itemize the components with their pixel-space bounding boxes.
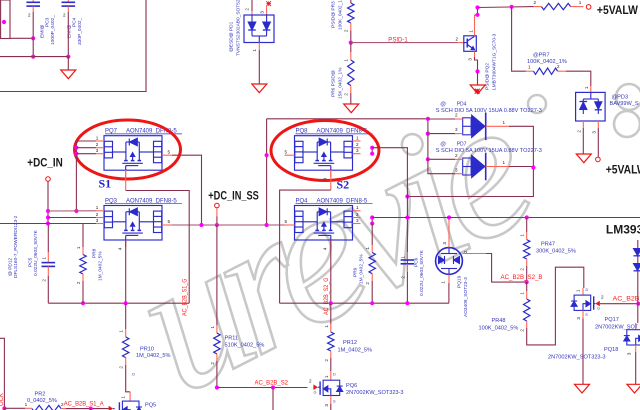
svg-text:S SCH DIO 5A 100V 15UA 0.88V T: S SCH DIO 5A 100V 15UA 0.88V TO227-3 [436, 148, 542, 154]
junction bus/PQ8.5 [265, 223, 269, 227]
svg-text:2: 2 [455, 153, 458, 158]
resistor PR47 [526, 218, 528, 233]
wire PQ7 pin3 [76, 153, 96, 155]
svg-text:PC4: PC4 [72, 17, 78, 27]
svg-text:1M_0402_5%: 1M_0402_5% [136, 353, 171, 359]
svg-text:S SCH DIO 5A 100V 15UA 0.88V T: S SCH DIO 5A 100V 15UA 0.88V TO227-3 [436, 108, 542, 114]
svg-text:1: 1 [503, 160, 506, 165]
svg-text:0.022U_0603_50V7K: 0.022U_0603_50V7K [33, 229, 39, 276]
capacitor PC3 [32, 0, 34, 2]
svg-text:3: 3 [324, 404, 329, 407]
svg-text:3: 3 [260, 11, 265, 14]
svg-text:2: 2 [309, 378, 312, 383]
svg-text:1: 1 [344, 59, 349, 62]
svg-text:2: 2 [520, 268, 525, 271]
svg-text:BAV99W_S: BAV99W_S [610, 101, 639, 107]
svg-text:2: 2 [96, 142, 99, 147]
svg-text:PR10: PR10 [140, 346, 154, 352]
svg-text:1: 1 [576, 289, 581, 292]
esd diode PD1 [244, 15, 274, 43]
wire gate bus S1 y=303.2 [48, 302, 189, 304]
resistor PR6 [350, 43, 352, 52]
svg-text:1: 1 [400, 256, 405, 259]
svg-text:1: 1 [520, 292, 525, 295]
svg-text:3: 3 [442, 242, 447, 245]
svg-text:2N7002KW_SOT323-3: 2N7002KW_SOT323-3 [548, 354, 606, 360]
wire PQ7 pins vertical [75, 141, 77, 211]
junction anode rail [426, 117, 430, 121]
svg-text:4: 4 [118, 247, 123, 250]
svg-text:2: 2 [365, 282, 370, 285]
wire PQ2 emitter [474, 51, 476, 57]
resistor PR48 [526, 282, 528, 291]
wire PR8 tap [82, 224, 84, 248]
svg-text:1M_0402_5%: 1M_0402_5% [338, 347, 373, 353]
wire right edge vertical [637, 240, 639, 249]
junction AC_B2B [636, 302, 640, 306]
wire PQ7 pin1 [76, 140, 96, 142]
svg-text:3: 3 [455, 127, 458, 132]
wire PC3 down [32, 12, 34, 57]
svg-text:1: 1 [469, 30, 474, 33]
ground (EMI caps) [61, 70, 76, 79]
svg-text:3: 3 [627, 352, 632, 355]
wire PQ19 pin2 [462, 253, 485, 255]
junction [89, 407, 93, 410]
svg-text:2: 2 [576, 130, 581, 133]
svg-text:3: 3 [468, 58, 473, 61]
svg-text:@: @ [440, 101, 446, 107]
svg-text:2: 2 [356, 142, 359, 147]
svg-text:2: 2 [119, 366, 124, 369]
wire PQ18 to ground [635, 345, 637, 352]
junction PQ7 pin2 [74, 146, 78, 150]
EMI block border [0, 0, 146, 92]
junction +5VALW pullup node [475, 5, 479, 9]
svg-text:G: G [597, 307, 600, 311]
svg-text:PQ17: PQ17 [605, 317, 619, 323]
svg-text:2: 2 [210, 362, 215, 365]
resistor PR9 [371, 224, 373, 246]
junction emitter [475, 69, 479, 73]
svg-text:3: 3 [455, 167, 458, 172]
svg-text:1: 1 [324, 375, 329, 378]
junction bus/port [215, 223, 219, 227]
wire PR3 to junction [350, 31, 352, 43]
wire AC_B2B_S2 [217, 387, 308, 389]
wire emitter to ground [477, 71, 479, 85]
resistor PR12 [330, 303, 332, 324]
svg-text:+DC_IN: +DC_IN [27, 157, 63, 169]
svg-text:5: 5 [284, 219, 287, 224]
wire PR7 to PD3 [566, 71, 591, 86]
svg-text:2: 2 [324, 359, 329, 362]
wire ground rail y=56.6 [0, 56, 68, 58]
svg-text:3: 3 [591, 131, 596, 134]
wire PQ8 source to S-net vertical [372, 148, 407, 304]
svg-text:1: 1 [324, 325, 329, 328]
resistor PR11 [216, 225, 218, 325]
wire PD12 net left edge [0, 338, 4, 408]
wire to PQ5 [66, 408, 109, 410]
svg-text:2: 2 [356, 212, 359, 217]
wire PD4 cathode [486, 125, 509, 127]
wire PQ4 pin4 down [330, 240, 332, 303]
svg-text:1: 1 [25, 402, 28, 407]
ground (PR6) [344, 104, 359, 113]
svg-text:LMBT3904WT1G_SC70-3: LMBT3904WT1G_SC70-3 [492, 33, 498, 90]
junction PC3 / ground rail [31, 55, 35, 59]
junction on connector box [2, 20, 6, 24]
svg-text:5: 5 [284, 149, 287, 154]
junction PQ4 pin4/bus [329, 301, 333, 305]
svg-text:@PR7: @PR7 [533, 52, 550, 58]
wire gate node to LM393 [372, 217, 640, 219]
svg-text:PSID-1: PSID-1 [388, 37, 408, 44]
wire PQ7 pin5 chain [172, 155, 202, 225]
junction AC_B2B_S2 left [215, 385, 219, 389]
svg-text:2: 2 [463, 250, 468, 253]
junction PR9/bus [370, 301, 374, 305]
mosfet PQ6 [313, 384, 318, 390]
no-connect x above PD4 [475, 89, 480, 94]
svg-text:1: 1 [210, 326, 215, 329]
wire PQ7 pin4 [125, 170, 127, 190]
svg-text:AO3409_SOT23-3: AO3409_SOT23-3 [463, 277, 469, 317]
junction pullup / PR7 [510, 5, 514, 9]
wire pullup node [478, 6, 534, 9]
junction S-net/bus [405, 301, 409, 305]
wire PQ8 pin4 [330, 170, 332, 190]
capacitor PC4 [67, 0, 69, 2]
svg-text:2: 2 [533, 0, 536, 5]
svg-text:DFLS160-7_POWERDI123-2: DFLS160-7_POWERDI123-2 [13, 215, 19, 278]
junction PQ3 pin4/bus [124, 301, 128, 305]
mosfet PQ18 (cut) [635, 323, 637, 330]
wire anode rail vertical [428, 119, 455, 174]
svg-text:330P_0402_: 330P_0402_ [77, 17, 83, 45]
svg-text:D: D [333, 373, 336, 377]
junction w2 [46, 215, 50, 219]
junction w1/PQ7 [74, 209, 78, 213]
svg-text:0_0402_5%: 0_0402_5% [27, 398, 57, 404]
svg-text:AC_B2B_S1_A: AC_B2B_S1_A [64, 401, 105, 408]
svg-text:AC_B2B_S2_G: AC_B2B_S2_G [324, 277, 330, 315]
connector box (cut at left edge) [1, 0, 10, 39]
wire PR11 to S2 net [216, 361, 218, 388]
svg-text:@PD3: @PD3 [612, 95, 629, 101]
svg-text:1: 1 [528, 65, 531, 70]
svg-text:G: G [314, 391, 317, 395]
wire PD7 cathode [486, 166, 509, 168]
svg-text:2: 2 [557, 64, 560, 69]
svg-text:PR6 PSID@: PR6 PSID@ [331, 70, 337, 97]
wire PD1 pin3 [266, 6, 268, 16]
wire diode feed y=118.8 [267, 118, 428, 120]
junction PR47/gate wire [525, 215, 529, 219]
svg-text:PR11: PR11 [225, 335, 239, 341]
svg-text:PQ5: PQ5 [145, 403, 156, 409]
junction w3 [46, 221, 50, 225]
transistor PQ2 [458, 42, 464, 44]
svg-text:PC6: PC6 [414, 257, 420, 267]
wire w1 [48, 210, 96, 212]
junction PSID-1 [349, 41, 353, 45]
wire w3 [0, 223, 96, 225]
wire PD4 anode pins [455, 118, 463, 120]
mosfet PQ5 [109, 406, 114, 410]
junction AC_B2B_S2_B [525, 280, 529, 284]
svg-text:1: 1 [41, 257, 46, 260]
wire PQ2 collector [474, 15, 476, 36]
svg-text:2: 2 [96, 212, 99, 217]
junction PC3 top wire [31, 36, 35, 40]
port +5VALW [586, 5, 591, 10]
wire PQ17 gate / AC_B2B [594, 303, 596, 305]
wire PQ6 source down [330, 396, 332, 405]
svg-text:1: 1 [520, 234, 525, 237]
svg-text:+5VALW: +5VALW [606, 165, 640, 177]
svg-text:D: D [586, 288, 589, 292]
wire PR12 to PQ6 [330, 358, 332, 371]
junction PQ4 pin3 [370, 221, 374, 225]
svg-text:PQ6: PQ6 [346, 383, 357, 389]
svg-text:AC_B2B_S2: AC_B2B_S2 [255, 380, 289, 387]
junction w1 [46, 209, 50, 213]
svg-text:510K_0402_5%: 510K_0402_5% [225, 342, 265, 348]
svg-text:1: 1 [579, 0, 582, 5]
wire PQ8 pins tie [371, 148, 373, 154]
svg-text:5: 5 [168, 149, 171, 154]
junction S-net/gate wire [405, 215, 409, 219]
svg-text:AC_B2B_S2_B: AC_B2B_S2_B [501, 274, 543, 281]
wire PD7 anode pins [455, 158, 463, 160]
svg-text:@ESD@ PD1: @ESD@ PD1 [229, 21, 235, 52]
junction PQ8 pin2 [370, 146, 374, 150]
capacitor PC5 [47, 225, 49, 252]
erc marker [475, 89, 480, 94]
junction AC_B2B_S2 [271, 385, 275, 389]
mosfet PQ17 [582, 288, 584, 295]
svg-text:S: S [585, 313, 588, 317]
svg-text:PC5: PC5 [28, 257, 34, 267]
ground (PQ18) [627, 384, 640, 393]
wire bottom net [4, 407, 25, 409]
svg-text:@ PD12: @ PD12 [8, 257, 14, 276]
svg-text:TVNSTS2302AB0_SOT523: TVNSTS2302AB0_SOT523 [236, 0, 242, 56]
svg-text:1: 1 [584, 86, 589, 89]
svg-text:1M_0402_5%: 1M_0402_5% [359, 254, 365, 284]
svg-text:AC_B2B: AC_B2B [613, 295, 640, 302]
svg-text:1: 1 [252, 49, 257, 52]
junction PQ8 pin5 [265, 153, 269, 157]
svg-text:+DC_IN_SS: +DC_IN_SS [208, 190, 259, 202]
svg-text:100K_0402_1%: 100K_0402_1% [527, 59, 567, 65]
svg-text:2: 2 [76, 281, 81, 284]
wire PD3 pin2 to ground [582, 121, 584, 128]
wire PR48 bottom loop [527, 267, 584, 345]
wire +DC_IN down [47, 181, 49, 225]
svg-text:0.022U_0603_50V7K: 0.022U_0603_50V7K [419, 249, 425, 296]
svg-text:1: 1 [356, 205, 359, 210]
wire gate bus S2 y=303.2 [280, 302, 449, 304]
svg-text:1: 1 [76, 246, 81, 249]
svg-text:5: 5 [168, 219, 171, 224]
svg-text:4: 4 [323, 247, 328, 250]
ground (PQ2 emitter) [470, 85, 485, 94]
svg-text:+5VALW: +5VALW [597, 5, 638, 17]
junction PQ8 pin3 [370, 152, 374, 156]
svg-text:3: 3 [356, 148, 359, 153]
svg-text:PR47: PR47 [541, 242, 555, 248]
wire port to bus [216, 208, 218, 217]
wire w2 [48, 217, 96, 219]
wire PD3 pin3 to port [597, 121, 599, 128]
svg-text:PR9: PR9 [353, 267, 359, 277]
wire PQ8 pin5 chain [266, 119, 268, 225]
svg-text:PQ18: PQ18 [604, 347, 618, 353]
wire PD1 pin1 to ground [258, 43, 260, 51]
svg-text:AC_B2B_S1_G: AC_B2B_S1_G [183, 278, 189, 316]
ground (PD1) [252, 84, 267, 93]
annotation ellipse S2 [271, 121, 379, 181]
svg-text:1: 1 [121, 396, 126, 399]
svg-text:3: 3 [96, 148, 99, 153]
junction PQ19 pin3/gate wire [447, 215, 451, 219]
svg-text:2: 2 [28, 13, 31, 18]
svg-text:1: 1 [365, 247, 370, 250]
svg-text:PR8: PR8 [92, 248, 98, 258]
svg-text:100K_0402_5%: 100K_0402_5% [479, 326, 519, 332]
svg-text:1000P_0402_: 1000P_0402_ [50, 15, 56, 45]
wire bus PQ3.5 to PQ4.5 [172, 224, 285, 226]
svg-text:2: 2 [455, 113, 458, 118]
svg-text:100K_0402_1: 100K_0402_1 [338, 0, 344, 30]
svg-text:PD7: PD7 [457, 142, 467, 148]
watermark [101, 57, 640, 410]
junction PD7 pin2 [426, 157, 430, 161]
junction bottom left [2, 406, 6, 410]
svg-text:1: 1 [356, 135, 359, 140]
wire AC_B2B_S2 down [272, 388, 274, 410]
wire PQ7 pin2 [76, 147, 96, 149]
wire to PD4 pin2 [428, 118, 455, 120]
svg-text:2: 2 [601, 295, 604, 300]
diode pair right edge (cut) [634, 249, 640, 271]
svg-text:1: 1 [441, 281, 446, 284]
junction PD4 pin3 [426, 132, 430, 136]
svg-text:PSID@ PQ2: PSID@ PQ2 [485, 63, 491, 90]
svg-text:2: 2 [400, 276, 405, 279]
port +5VALW 2 [596, 157, 601, 162]
resistor PR10 [125, 303, 127, 329]
wire PQ3 pin4 down [125, 240, 127, 303]
junction PQ4 pin2 [370, 215, 374, 219]
svg-text:15K_0402_1%: 15K_0402_1% [338, 67, 344, 99]
wire PD1 pin2 up [251, 0, 253, 11]
svg-text:PSID@ PR3: PSID@ PR3 [331, 1, 337, 28]
wire PR10 to PQ5 [126, 365, 130, 392]
svg-text:2: 2 [344, 93, 349, 96]
svg-text:1M_0402_5%: 1M_0402_5% [98, 251, 104, 281]
svg-text:PR12: PR12 [343, 340, 357, 346]
svg-text:300K_0402_5%: 300K_0402_5% [536, 249, 576, 255]
svg-text:1: 1 [96, 135, 99, 140]
wire PQ4 pins tie [371, 218, 373, 224]
svg-text:3: 3 [96, 218, 99, 223]
svg-text:@: @ [440, 142, 446, 148]
wire PQ17 source to ground [582, 310, 584, 318]
svg-text:PR2: PR2 [35, 391, 46, 397]
no-connect x PD1 pin3 [266, 1, 271, 6]
resistor pullup [534, 6, 542, 8]
mosfet PQ19 [436, 248, 463, 275]
wire cathode to gate node [407, 169, 533, 197]
diode PD3 [576, 92, 606, 121]
wire node down to PR7 [512, 7, 526, 71]
annotation ellipse S1 [75, 120, 181, 179]
wire PC4 down [67, 12, 69, 57]
junction cathodes [531, 165, 535, 169]
svg-text:2: 2 [63, 13, 66, 18]
svg-text:2: 2 [455, 37, 458, 42]
wire PQ19 pin1 down [448, 274, 450, 283]
svg-text:1: 1 [96, 205, 99, 210]
ground (PQ17) [575, 384, 590, 393]
svg-text:PD4: PD4 [457, 101, 467, 107]
junction bus/PQ7.5 [199, 223, 203, 227]
capacitor PC6 [406, 252, 408, 260]
junction PR8/bus [81, 301, 85, 305]
svg-text:OCK: OCK [0, 393, 5, 406]
svg-text:2: 2 [41, 279, 46, 282]
svg-text:3: 3 [576, 317, 581, 320]
svg-text:PR48: PR48 [492, 318, 506, 324]
junction gate node / diode return [405, 194, 409, 198]
svg-text:PQ19: PQ19 [457, 275, 463, 288]
junction PC4 / ground rail [66, 55, 70, 59]
ground (PD3) [576, 154, 591, 163]
svg-text:2: 2 [344, 29, 349, 32]
svg-text:1: 1 [119, 330, 124, 333]
svg-text:LM393_: LM393_ [606, 222, 640, 236]
wire connector to PC3 [10, 37, 33, 39]
resistor PR3 [350, 0, 352, 3]
wire PR6 to ground [350, 93, 352, 104]
svg-text:1: 1 [503, 120, 506, 125]
svg-text:D: D [132, 373, 135, 377]
net PSID-1 [351, 42, 458, 44]
svg-text:PC3: PC3 [45, 17, 51, 27]
svg-text:2N7002KW_SOT323-3: 2N7002KW_SOT323-3 [346, 390, 404, 396]
svg-text:2: 2 [245, 8, 250, 11]
resistor PR8 [82, 247, 84, 255]
junction PQ7 pin3 [74, 152, 78, 156]
svg-text:2: 2 [520, 329, 525, 332]
wire PC4 to ground [67, 57, 69, 70]
svg-text:3: 3 [356, 218, 359, 223]
wire PQ19 pin3 up [448, 218, 450, 248]
